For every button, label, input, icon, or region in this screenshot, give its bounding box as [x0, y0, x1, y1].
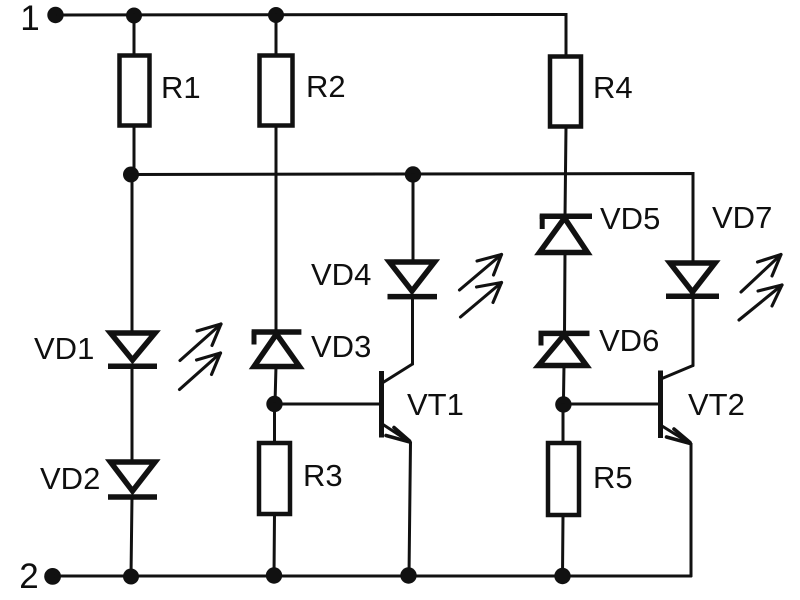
- wire VD3 node to R3: [273, 404, 276, 442]
- junction dot middle rail left: [123, 167, 139, 183]
- wire R3 bottom: [273, 514, 277, 576]
- transistor VT1: [382, 364, 464, 443]
- diode VD2: [40, 461, 157, 497]
- led VD1: [34, 331, 157, 366]
- wire VT1 emitter down: [409, 443, 411, 577]
- light arrows VD1: [180, 324, 222, 390]
- wire R2 top: [275, 15, 278, 54]
- svg-text:R5: R5: [593, 460, 633, 495]
- wire VT2 emitter down: [690, 444, 693, 576]
- svg-text:VD3: VD3: [311, 329, 371, 364]
- transistor VT2: [661, 366, 745, 445]
- svg-text:R3: R3: [303, 458, 343, 493]
- wire middle rail: [131, 174, 693, 263]
- light arrows VD4: [460, 255, 502, 318]
- led VD7: [666, 200, 772, 296]
- wire top rail: [58, 15, 566, 56]
- wire VD3 bottom: [275, 366, 276, 404]
- wire VT2 base: [563, 403, 657, 406]
- zener VD3: [252, 329, 372, 367]
- svg-text:VD1: VD1: [34, 331, 94, 366]
- wire VD2 bottom: [131, 497, 132, 576]
- junction dot bottom VT1 emitter: [400, 567, 416, 583]
- svg-text:VD4: VD4: [311, 257, 371, 292]
- wire VD5 to VD6: [563, 252, 567, 334]
- wire VD1 to VD2: [131, 366, 134, 462]
- terminal dot node 2: [44, 568, 61, 585]
- svg-text:2: 2: [19, 557, 38, 596]
- svg-text:VD7: VD7: [712, 200, 772, 235]
- junction dot middle rail VD4 branch: [405, 166, 421, 182]
- svg-text:VD2: VD2: [40, 461, 100, 496]
- wire VT1 base: [275, 403, 380, 406]
- resistor R3: [259, 443, 343, 514]
- junction dot top rail R1: [126, 8, 142, 24]
- junction dot top rail R2: [268, 7, 284, 23]
- junction dot bottom R3 branch: [266, 567, 282, 583]
- wire R1 top: [133, 15, 136, 54]
- wire R5 bottom: [561, 515, 565, 576]
- wire VD6 node to R5: [562, 405, 565, 443]
- resistor R5: [548, 443, 633, 515]
- junction dot bottom VD2 branch: [123, 569, 139, 585]
- wire VD6 bottom: [562, 365, 566, 405]
- wire R2 bottom to VD3: [275, 125, 278, 331]
- svg-text:VT2: VT2: [688, 387, 745, 422]
- svg-text:R2: R2: [306, 69, 346, 104]
- wire VD4 to VT1 collector: [411, 297, 414, 365]
- wire R1 bottom: [133, 125, 136, 174]
- led VD4: [311, 257, 437, 297]
- wire bottom rail: [55, 575, 691, 578]
- wire R4 bottom to VD5: [565, 127, 566, 217]
- svg-text:VD6: VD6: [599, 323, 659, 358]
- resistor R4: [550, 57, 633, 127]
- zener VD6: [539, 323, 660, 366]
- zener VD5: [540, 201, 661, 253]
- wire VD7 to VT2 collector: [692, 296, 695, 365]
- svg-text:R1: R1: [161, 70, 201, 105]
- terminal dot node 1: [47, 7, 63, 23]
- resistor R2: [260, 56, 346, 126]
- svg-text:R4: R4: [593, 70, 633, 105]
- wire VD1 top: [131, 175, 134, 334]
- junction dot VT2 base node: [555, 396, 571, 412]
- wire VD4 branch top: [412, 175, 415, 263]
- light arrows VD7: [739, 255, 782, 321]
- node 2 label: [19, 557, 38, 596]
- node 1 label: [20, 0, 39, 38]
- svg-text:VD5: VD5: [600, 201, 660, 236]
- junction dot bottom R5 branch: [554, 568, 570, 584]
- junction dot VT1 base node: [266, 396, 282, 412]
- svg-text:1: 1: [20, 0, 39, 38]
- resistor R1: [120, 56, 201, 126]
- svg-text:VT1: VT1: [407, 387, 464, 422]
